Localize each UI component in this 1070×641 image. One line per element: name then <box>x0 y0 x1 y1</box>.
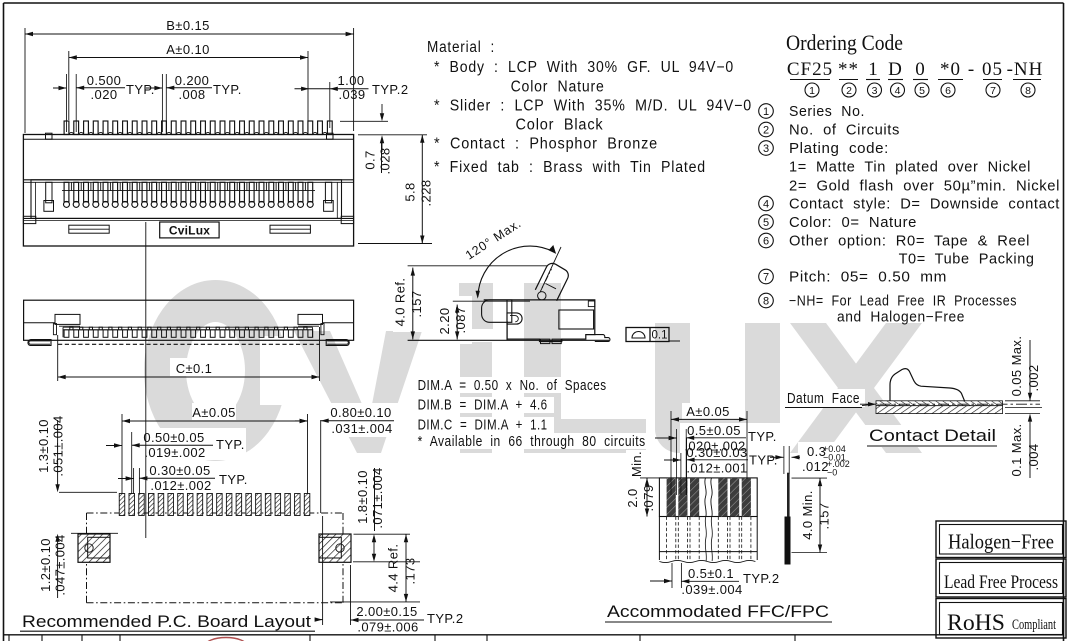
svg-text:0.1 Max.: 0.1 Max. <box>1009 423 1024 476</box>
svg-text:1.8±0.10: 1.8±0.10 <box>355 470 370 524</box>
svg-text:Min.: Min. <box>629 451 644 477</box>
svg-text:.028: .028 <box>378 148 393 175</box>
svg-text:.071±.004: .071±.004 <box>370 467 385 528</box>
dimension 0.200 TYP. <box>146 87 162 89</box>
svg-text:-: - <box>968 59 975 80</box>
svg-text:5.8: 5.8 <box>403 182 418 201</box>
svg-text:**: ** <box>838 59 859 80</box>
svg-text:Color Nature: Color Nature <box>511 79 605 96</box>
datum centerline <box>860 403 1040 405</box>
ffc dimension 0.5+-0.1 TYP.2 <box>671 563 673 588</box>
top view dashed line <box>58 343 320 345</box>
svg-text:3: 3 <box>872 85 878 97</box>
top view outline <box>24 300 354 340</box>
dimension 1.8 right <box>374 468 376 531</box>
fixed tab pins <box>46 182 52 203</box>
svg-text:4.0 Ref.: 4.0 Ref. <box>393 278 408 327</box>
svg-text:TYP.2: TYP.2 <box>372 82 408 97</box>
side view actuator flap <box>535 263 568 300</box>
svg-text:05: 05 <box>982 59 1003 80</box>
svg-text:4.4 Ref.: 4.4 Ref. <box>386 544 401 593</box>
svg-text:* Fixed tab : Brass with Tin P: * Fixed tab : Brass with Tin Plated <box>434 159 706 176</box>
svg-text:.008: .008 <box>179 87 206 102</box>
red revision ellipse <box>205 638 247 641</box>
svg-text:2= Gold flash over 50µ”min. Ni: 2= Gold flash over 50µ”min. Nickel <box>789 179 1060 195</box>
svg-text:DIM.B = DIM.A + 4.6: DIM.B = DIM.A + 4.6 <box>418 398 548 414</box>
ffc cross-section outline <box>659 478 757 517</box>
contact finger profile <box>890 369 965 401</box>
svg-text:TYP.: TYP. <box>126 82 155 97</box>
svg-text:.004: .004 <box>1026 444 1041 471</box>
svg-text:4.0 Min.: 4.0 Min. <box>800 490 815 539</box>
top view fitting nails (feet) <box>28 340 51 346</box>
front view connector body <box>23 135 353 247</box>
svg-text:4: 4 <box>763 198 769 210</box>
svg-text:0.1: 0.1 <box>652 330 668 342</box>
svg-text:6: 6 <box>763 235 769 247</box>
svg-text:1: 1 <box>763 106 769 118</box>
baseline <box>408 339 609 341</box>
circled position numbers <box>805 83 819 97</box>
CviLux label box <box>160 222 219 238</box>
svg-text:A±0.10: A±0.10 <box>166 42 210 57</box>
svg-text:TYP.2: TYP.2 <box>743 571 779 586</box>
svg-text:Material :: Material : <box>427 39 495 56</box>
svg-text:DIM.A = 0.50 x No. of Spaces: DIM.A = 0.50 x No. of Spaces <box>418 378 607 394</box>
svg-text:.051±.004: .051±.004 <box>51 415 66 476</box>
ffc side dimension 0.3 <box>770 456 783 458</box>
dimension 1.2 left <box>71 532 118 534</box>
bottom band details <box>23 216 35 223</box>
ffc torn bottom edge <box>659 560 755 562</box>
ffc side profile thin <box>787 473 790 517</box>
svg-text:0.05 Max.: 0.05 Max. <box>1009 336 1024 397</box>
svg-text:.228: .228 <box>419 180 434 207</box>
svg-text:.047±.004: .047±.004 <box>53 534 68 595</box>
svg-text:Other option: R0= Tape & Reel: Other option: R0= Tape & Reel <box>789 234 1030 250</box>
svg-text:Ordering Code: Ordering Code <box>786 30 903 55</box>
svg-text:*0: *0 <box>940 59 961 80</box>
dimension 0.05 Max <box>1029 340 1031 401</box>
svg-text:A±0.05: A±0.05 <box>192 405 236 420</box>
svg-text:.039: .039 <box>339 87 366 102</box>
pcb pads <box>119 494 310 516</box>
svg-text:RoHS: RoHS <box>947 610 1005 635</box>
flatness feature control frame <box>626 328 669 342</box>
svg-text:.079±.006: .079±.006 <box>357 620 418 635</box>
svg-text:Halogen−Free: Halogen−Free <box>948 530 1054 554</box>
dimension C+-0.1 <box>57 335 59 381</box>
svg-text:T0= Tube Packing: T0= Tube Packing <box>899 252 1035 268</box>
contact comb <box>64 182 314 207</box>
svg-text:Color Black: Color Black <box>516 117 604 134</box>
svg-text:1= Matte Tin plated over Nicke: 1= Matte Tin plated over Nickel <box>789 160 1031 176</box>
svg-text:7: 7 <box>990 85 996 97</box>
top view slider end blocks <box>55 314 80 324</box>
svg-text:Lead Free Process: Lead Free Process <box>944 572 1058 593</box>
ffc side dimension 4.0 Min <box>792 477 828 479</box>
svg-text:and Halogen−Free: and Halogen−Free <box>837 310 965 326</box>
front view top pins <box>64 121 332 135</box>
text halos <box>144 276 999 555</box>
ffc dimension 0.5+-0.05 <box>655 437 677 439</box>
dimension 0.1 Max <box>1029 416 1031 478</box>
svg-text:* Available in 66 through 80 c: * Available in 66 through 80 circuits <box>418 434 646 450</box>
svg-text:1.2±0.10: 1.2±0.10 <box>38 538 53 592</box>
svg-text:0.200: 0.200 <box>175 73 210 88</box>
svg-text:CF25: CF25 <box>787 59 833 80</box>
svg-text:Plating code:: Plating code: <box>789 141 889 157</box>
svg-text:* Slider : LCP With 35% M/D. U: * Slider : LCP With 35% M/D. UL 94V−0 <box>434 98 752 115</box>
svg-text:3: 3 <box>763 143 769 155</box>
svg-text:2.00±0.15: 2.00±0.15 <box>356 604 417 619</box>
svg-text:Recommended P.C. Board Layout: Recommended P.C. Board Layout <box>22 613 311 631</box>
svg-text:.087: .087 <box>453 307 468 334</box>
svg-text:D: D <box>888 59 903 80</box>
svg-text:2: 2 <box>763 124 769 136</box>
dimension 2.00+-0.15 <box>322 516 324 625</box>
svg-text:B±0.15: B±0.15 <box>166 18 210 33</box>
svg-text:−NH= For Lead Free IR Processe: −NH= For Lead Free IR Processes <box>789 294 1017 310</box>
contact detail strip <box>876 401 1003 406</box>
svg-text:.157: .157 <box>817 503 832 530</box>
svg-text:2.0: 2.0 <box>625 488 640 507</box>
title block table <box>4 634 1064 636</box>
dimension 5.8 <box>421 135 423 244</box>
svg-text:* Contact : Phosphor Bronze: * Contact : Phosphor Bronze <box>434 136 658 153</box>
svg-text:Pitch: 05= 0.50 mm: Pitch: 05= 0.50 mm <box>789 270 947 286</box>
svg-text:1.3±0.10: 1.3±0.10 <box>36 419 51 473</box>
side view cavity <box>559 310 594 329</box>
watermark CviLux <box>165 283 922 453</box>
svg-text:.012±.002: .012±.002 <box>150 478 211 493</box>
centerline <box>145 222 147 538</box>
svg-text:* Body : LCP With 30% GF. UL 9: * Body : LCP With 30% GF. UL 94V−0 <box>434 59 734 76</box>
side view body <box>484 300 595 342</box>
side view slider block <box>482 300 512 322</box>
svg-text:5: 5 <box>763 217 769 229</box>
svg-text:DIM.C = DIM.A + 1.1: DIM.C = DIM.A + 1.1 <box>418 418 548 434</box>
svg-text:0: 0 <box>915 59 926 80</box>
svg-text:0.50±0.05: 0.50±0.05 <box>143 430 204 445</box>
dimension 1.3 left <box>57 420 59 490</box>
svg-text:Contact style: D= Downside con: Contact style: D= Downside contact <box>789 197 1060 213</box>
svg-text:Compliant: Compliant <box>1012 617 1057 633</box>
Lead Free Process box <box>936 559 1066 597</box>
svg-text:0.30±0.05: 0.30±0.05 <box>149 463 210 478</box>
side view fixed tab foot <box>595 335 610 342</box>
svg-text:TYP.: TYP. <box>749 453 778 468</box>
svg-text:.031±.004: .031±.004 <box>331 421 392 436</box>
svg-text:C±0.1: C±0.1 <box>176 361 213 376</box>
svg-text:1: 1 <box>868 59 879 80</box>
svg-text:CviLux: CviLux <box>169 224 210 238</box>
svg-text:Color: 0= Nature: Color: 0= Nature <box>789 215 917 231</box>
side view contact barrel <box>507 313 522 324</box>
svg-text:−0: −0 <box>827 468 837 478</box>
svg-text:1.00: 1.00 <box>338 73 365 88</box>
120 deg arc <box>478 246 554 296</box>
svg-text:TYP.: TYP. <box>219 472 248 487</box>
dimension 4.4 Ref <box>353 561 420 563</box>
svg-text:.079: .079 <box>641 485 656 512</box>
svg-text:TYP.2: TYP.2 <box>427 611 463 626</box>
svg-text:2: 2 <box>846 85 852 97</box>
ffc break lines <box>705 478 706 517</box>
dimension 1.00 TYP.2 <box>295 88 369 90</box>
pcb layout dash-dot outline <box>87 512 344 514</box>
svg-text:.012: .012 <box>802 459 829 474</box>
svg-text:0.80±0.10: 0.80±0.10 <box>330 405 391 420</box>
side view solder tails <box>541 339 550 344</box>
svg-text:Accommodated FFC/FPC: Accommodated FFC/FPC <box>607 602 829 621</box>
svg-text:A±0.05: A±0.05 <box>686 404 730 419</box>
svg-text:0.30±0.03: 0.30±0.03 <box>686 445 747 460</box>
svg-text:.012±.001: .012±.001 <box>686 461 747 476</box>
svg-text:Series No.: Series No. <box>789 104 865 120</box>
svg-text:.157: .157 <box>409 291 424 318</box>
dimension 0.7 <box>340 120 388 122</box>
dimension 0.30+-0.05 <box>118 478 134 480</box>
svg-text:.002: .002 <box>1026 365 1041 392</box>
svg-text:4: 4 <box>895 85 901 97</box>
RoHS Compliant box <box>936 599 1066 639</box>
svg-text:8: 8 <box>1025 85 1031 97</box>
svg-text:5: 5 <box>919 85 925 97</box>
svg-text:8: 8 <box>763 295 769 307</box>
svg-text:.173: .173 <box>403 558 418 585</box>
ordering list <box>759 104 774 119</box>
svg-text:0.7: 0.7 <box>363 150 378 169</box>
svg-text:.019±.002: .019±.002 <box>144 445 205 460</box>
svg-text:TYP.: TYP. <box>216 437 245 452</box>
svg-text:6: 6 <box>945 85 951 97</box>
svg-text:TYP.: TYP. <box>748 429 777 444</box>
dimension 2.20 side <box>453 300 530 302</box>
svg-text:Datum Face: Datum Face <box>787 391 860 407</box>
top view contact teeth comb <box>63 326 313 328</box>
ffc lower part <box>659 551 757 553</box>
slider inner frame <box>31 180 342 219</box>
dimension 4.0 Ref side <box>408 265 548 267</box>
ffc conductors <box>667 478 676 517</box>
Halogen-Free box <box>936 521 1066 558</box>
svg-text:0.5±0.05: 0.5±0.05 <box>687 423 741 438</box>
side view corner notch <box>588 301 595 307</box>
svg-text:No. of Circuits: No. of Circuits <box>789 123 900 139</box>
polarization bumps on lip <box>46 133 53 139</box>
svg-text:0.500: 0.500 <box>87 73 122 88</box>
dimension 0.50+-0.05 <box>106 445 122 447</box>
pcb fitting nail pads <box>78 534 110 562</box>
svg-text:.039±.004: .039±.004 <box>681 582 742 597</box>
svg-text:2.20: 2.20 <box>437 308 452 335</box>
svg-text:.020: .020 <box>91 87 118 102</box>
dimension 0.80+-0.10 <box>320 420 322 513</box>
svg-text:TYP.: TYP. <box>213 82 242 97</box>
ffc dimension 0.30+-0.03 <box>664 459 681 461</box>
svg-text:-NH: -NH <box>1007 59 1044 80</box>
svg-text:1: 1 <box>809 85 815 97</box>
svg-text:Contact Detail: Contact Detail <box>869 427 996 445</box>
svg-text:7: 7 <box>763 271 769 283</box>
svg-text:0.5±0.1: 0.5±0.1 <box>688 566 734 581</box>
dimension 0.500 TYP. <box>53 87 67 89</box>
